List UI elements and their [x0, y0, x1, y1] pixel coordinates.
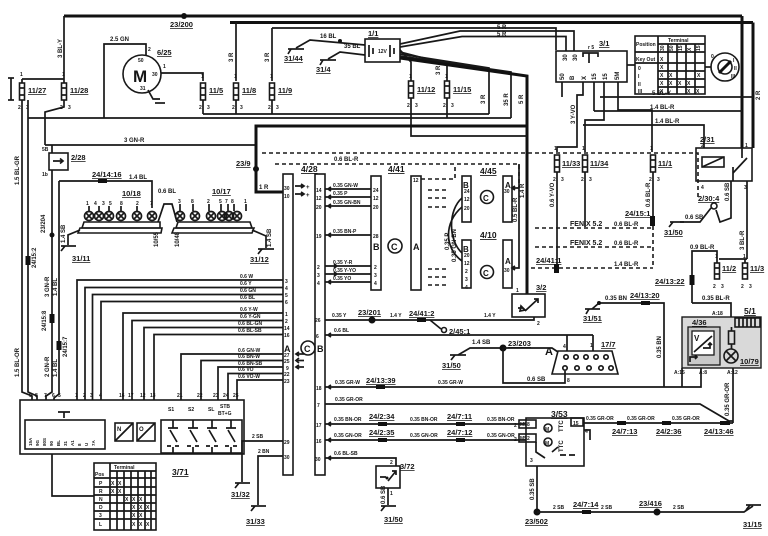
svg-text:11/28: 11/28: [70, 86, 88, 95]
wire motor pin30 to fuse 11/5: [161, 73, 203, 81]
svg-text:2 SB: 2 SB: [673, 505, 685, 511]
svg-text:O: O: [139, 427, 144, 433]
svg-text:6/25: 6/25: [157, 48, 172, 57]
svg-text:11/34: 11/34: [590, 159, 609, 168]
svg-text:2: 2: [18, 105, 21, 111]
ground 31/4: [328, 52, 365, 59]
svg-text:1.5 BL-GR: 1.5 BL-GR: [15, 155, 21, 185]
svg-text:3 R: 3 R: [481, 94, 487, 104]
svg-text:23/502: 23/502: [525, 517, 548, 526]
svg-text:4/28: 4/28: [301, 164, 318, 174]
solenoid N: [115, 423, 133, 441]
svg-text:2: 2: [390, 460, 393, 466]
svg-text:18: 18: [316, 386, 322, 392]
svg-text:0.6 BL: 0.6 BL: [158, 189, 176, 195]
svg-text:0.6 Y-VO: 0.6 Y-VO: [550, 182, 556, 207]
svg-text:1.4 Y: 1.4 Y: [390, 313, 402, 319]
svg-text:2: 2: [199, 105, 202, 111]
svg-text:1: 1: [650, 146, 653, 152]
wire left long vertical 11/27 pin2: [22, 100, 32, 400]
wire top bus 30-feed: [64, 15, 742, 18]
svg-text:3 R: 3 R: [436, 65, 442, 75]
svg-text:17: 17: [128, 393, 134, 399]
svg-text:2 SB: 2 SB: [601, 505, 613, 511]
wire second top bus: [230, 21, 753, 24]
svg-text:0.35 GN-BN: 0.35 GN-BN: [333, 200, 361, 206]
svg-text:11/15: 11/15: [453, 85, 471, 94]
svg-text:1.4 R: 1.4 R: [520, 183, 526, 198]
svg-text:1.4 BL-R: 1.4 BL-R: [655, 119, 680, 125]
svg-text:2: 2: [553, 177, 556, 183]
ground motor 31: [148, 90, 160, 99]
svg-text:B: B: [570, 75, 576, 80]
svg-text:BL: BL: [56, 440, 61, 446]
svg-text:15: 15: [603, 73, 609, 80]
svg-text:2: 2: [649, 177, 652, 183]
svg-text:30: 30: [504, 268, 510, 274]
svg-text:A1: A1: [70, 440, 75, 446]
wire dashed stubs 4/45: [428, 190, 448, 207]
svg-text:1.4 BL-R: 1.4 BL-R: [650, 105, 675, 111]
svg-text:0.6 SB: 0.6 SB: [527, 377, 546, 383]
svg-text:16: 16: [316, 439, 322, 445]
wire battery fan to 11/15: [400, 52, 447, 81]
svg-text:35 R: 35 R: [504, 93, 510, 106]
node 23/201: [369, 317, 376, 324]
svg-text:19: 19: [316, 234, 322, 240]
wire stair pin23 0.6 VO-W: [237, 380, 283, 400]
svg-text:0.35 BN-OR: 0.35 BN-OR: [487, 417, 515, 423]
wire row 20 GN-BN: [325, 204, 371, 208]
svg-text:15: 15: [678, 45, 684, 51]
svg-text:A:18: A:18: [712, 311, 723, 317]
wire 11/1 down 0.6 BL-R: [652, 172, 654, 222]
svg-text:V: V: [694, 334, 700, 343]
wire row 3 Y-YO: [325, 272, 371, 276]
svg-text:24/2:36: 24/2:36: [656, 427, 681, 436]
wire stair pin5 0.6GN: [93, 295, 284, 401]
svg-text:6: 6: [316, 334, 319, 340]
wire row 4 YO: [325, 280, 371, 284]
svg-text:0.35 BN-P: 0.35 BN-P: [333, 229, 357, 235]
svg-text:1: 1: [554, 146, 557, 152]
fuse 11/3: [743, 263, 748, 279]
SEC-C: [531, 36, 764, 330]
svg-text:1: 1: [234, 74, 237, 80]
wire 0.5 BL-R vertical to pins 30: [513, 164, 519, 268]
svg-text:11/12: 11/12: [417, 85, 435, 94]
svg-text:0.35 GR-W: 0.35 GR-W: [335, 380, 360, 386]
wire 24/14:16 row 1.4 BL: [59, 181, 152, 208]
svg-text:2: 2: [701, 143, 704, 149]
wire row pin26 1.4Y: [325, 317, 534, 320]
svg-text:0.35 GN-W: 0.35 GN-W: [333, 183, 358, 189]
svg-text:S1: S1: [168, 407, 174, 413]
svg-text:24/13:20: 24/13:20: [630, 291, 660, 300]
fuse 11/27: [20, 83, 25, 100]
svg-text:23: 23: [213, 393, 219, 399]
wire right drop to relay 2/31 pin1: [741, 16, 744, 148]
svg-text:11/27: 11/27: [28, 86, 46, 95]
svg-text:C: C: [483, 194, 489, 203]
svg-text:1 R: 1 R: [259, 185, 269, 191]
svg-text:U: U: [84, 443, 89, 446]
svg-text:14: 14: [316, 188, 322, 194]
SEC-D: [15, 100, 698, 400]
svg-text:26: 26: [315, 318, 321, 324]
svg-text:3: 3: [465, 277, 468, 283]
svg-text:12: 12: [373, 196, 379, 202]
svg-text:0.35 P: 0.35 P: [445, 233, 451, 250]
svg-text:2: 2: [443, 103, 446, 109]
svg-text:0.6 SB: 0.6 SB: [685, 215, 704, 221]
svg-text:31/50: 31/50: [442, 361, 461, 370]
bridge between trays: [158, 204, 177, 222]
resistor: [731, 327, 733, 349]
svg-text:1: 1: [582, 146, 585, 152]
wire stair pin6 0.6BL: [101, 302, 283, 401]
svg-text:4/36: 4/36: [692, 318, 707, 327]
svg-text:L: L: [99, 522, 102, 528]
wire A:12 down: [732, 368, 734, 423]
wire 2/30:4 and ground: [716, 181, 731, 222]
svg-text:1: 1: [75, 393, 78, 399]
wire 2SB ground 31/32: [242, 441, 283, 482]
svg-text:SL: SL: [208, 407, 214, 413]
svg-text:4: 4: [94, 201, 97, 207]
wire 2.5 GN feed: [104, 44, 146, 118]
svg-text:2 GN-R: 2 GN-R: [45, 356, 51, 377]
svg-text:30: 30: [573, 54, 579, 61]
svg-text:TTC: TTC: [559, 420, 565, 432]
svg-text:7A: 7A: [91, 439, 96, 446]
svg-text:12: 12: [464, 197, 470, 203]
svg-text:2/30:4: 2/30:4: [698, 194, 720, 203]
svg-text:1: 1: [270, 74, 273, 80]
svg-text:3 BL-R: 3 BL-R: [740, 230, 746, 250]
svg-text:2: 2: [83, 393, 86, 399]
wire row pin18 GR-W 24/13:39: [325, 368, 701, 389]
svg-text:2 R: 2 R: [756, 90, 762, 100]
wire ground bus 2 SB: [537, 506, 753, 512]
wire fuse 11/28 bottom jog: [45, 100, 64, 145]
svg-text:1: 1: [745, 143, 748, 149]
svg-text:1: 1: [201, 74, 204, 80]
wire bus y28 inner feed: [272, 28, 556, 50]
svg-text:N: N: [117, 427, 121, 433]
svg-text:2: 2: [465, 269, 468, 275]
svg-text:20: 20: [373, 205, 379, 211]
node 24/15:8: [50, 314, 55, 323]
svg-text:9G: 9G: [35, 439, 40, 446]
wire stair pin16 0.6 BL-SB: [154, 335, 283, 401]
svg-text:15: 15: [592, 73, 598, 80]
svg-text:11/8: 11/8: [242, 86, 256, 95]
wire stair pin1 0.6 Y-W: [123, 313, 283, 400]
switch pack S1 S2 SL STB: [161, 420, 242, 453]
svg-text:24: 24: [223, 393, 229, 399]
svg-text:4: 4: [374, 281, 377, 287]
fuse 11/2: [715, 263, 720, 279]
terminal strip: [25, 420, 105, 449]
svg-text:9: 9: [29, 393, 32, 399]
svg-text:31/51: 31/51: [583, 314, 602, 323]
svg-text:24/13:39: 24/13:39: [366, 376, 396, 385]
svg-text:24/15:8: 24/15:8: [42, 310, 48, 331]
svg-text:15: 15: [573, 421, 579, 427]
svg-text:1.4 BL: 1.4 BL: [53, 359, 59, 377]
svg-text:10/18: 10/18: [122, 189, 141, 198]
svg-text:4: 4: [317, 281, 320, 287]
svg-text:2: 2: [741, 284, 744, 290]
wire stair pin9 0.6 BN-SB: [218, 365, 299, 400]
svg-text:28: 28: [373, 234, 379, 240]
lamp bulbs 10/17: [176, 212, 242, 221]
wire drop to fuse 11/8: [235, 23, 237, 82]
svg-text:5 R: 5 R: [497, 25, 507, 31]
svg-text:0.6 BL-R: 0.6 BL-R: [646, 182, 652, 207]
wire fuse 11/27 pin3 drop: [27, 100, 29, 118]
svg-text:21: 21: [177, 393, 183, 399]
svg-text:7: 7: [150, 201, 153, 207]
svg-text:0.35 Y: 0.35 Y: [332, 313, 347, 319]
svg-text:20: 20: [464, 206, 470, 212]
wire battery fan to 11/12: [400, 50, 411, 81]
svg-text:3: 3: [657, 177, 660, 183]
SEC-A: [8, 13, 762, 148]
wire row 12 P: [325, 195, 371, 199]
svg-text:2: 2: [514, 437, 517, 443]
node 23/502: [534, 509, 541, 516]
svg-text:0.35 GN-BN: 0.35 GN-BN: [452, 229, 458, 262]
svg-text:5 R: 5 R: [497, 32, 507, 38]
svg-text:0.35 GR-OR: 0.35 GR-OR: [586, 416, 614, 422]
svg-text:16 BL: 16 BL: [320, 34, 337, 40]
svg-text:2: 2: [581, 177, 584, 183]
svg-text:30: 30: [284, 186, 290, 192]
wire row pin17 BN-OR: [325, 422, 526, 426]
SEC-F: [315, 283, 761, 423]
svg-text:2 SB: 2 SB: [553, 505, 565, 511]
svg-text:24/7:11: 24/7:11: [447, 412, 472, 421]
svg-text:0: 0: [711, 54, 714, 60]
ground 31/50 right: [670, 221, 684, 223]
wire dashed 4/41 pin12: [421, 164, 455, 179]
svg-text:2.5 GN: 2.5 GN: [110, 37, 129, 43]
ignition table Position/Terminal: [635, 36, 705, 94]
svg-text:25: 25: [284, 359, 290, 365]
ground 31/51: [592, 303, 599, 309]
svg-text:1: 1: [590, 343, 593, 349]
svg-text:24: 24: [464, 189, 470, 195]
svg-text:5B: 5B: [42, 147, 49, 153]
svg-text:0.6 Y-W: 0.6 Y-W: [240, 307, 258, 313]
wire dashed D2: [275, 164, 519, 188]
svg-text:2: 2: [713, 284, 716, 290]
svg-text:20: 20: [316, 205, 322, 211]
node 24/15:7: [57, 341, 62, 350]
T symbol: [58, 412, 70, 418]
svg-text:3: 3: [90, 393, 93, 399]
svg-text:3: 3: [530, 458, 533, 464]
wire 2/28 down long: [46, 170, 52, 400]
wire 0.35 BN 24/13:20: [599, 303, 664, 330]
svg-text:2/28: 2/28: [71, 153, 86, 162]
svg-text:2: 2: [537, 321, 540, 327]
wire 1.4 BL-R upper: [594, 110, 742, 112]
wire battery fan 5R b: [400, 37, 566, 52]
wire 3 GN-R row: [45, 144, 256, 146]
svg-text:0.35 P: 0.35 P: [333, 191, 348, 197]
svg-text:30: 30: [563, 54, 569, 61]
svg-text:3/71: 3/71: [172, 467, 189, 477]
svg-text:31/15: 31/15: [743, 520, 762, 529]
solenoid D: [137, 423, 155, 441]
wire row 2 Y-R: [325, 264, 371, 268]
svg-text:0.35 GR-OR: 0.35 GR-OR: [725, 382, 731, 416]
svg-text:FENIX 5.2: FENIX 5.2: [570, 240, 602, 247]
svg-text:Terminal: Terminal: [114, 465, 135, 471]
wire stair pin4 0.6Y: [85, 288, 283, 401]
svg-text:1: 1: [715, 254, 718, 260]
connector 2/45:1: [430, 320, 441, 329]
svg-text:0.6 Y: 0.6 Y: [240, 281, 252, 287]
edge bracket: [10, 78, 12, 100]
svg-text:1: 1: [516, 288, 519, 294]
svg-text:+: +: [306, 185, 310, 191]
wire dashed D1: [262, 153, 698, 200]
wire stair pin25 0.6 BN-W: [201, 358, 299, 400]
svg-text:50: 50: [560, 73, 566, 80]
svg-text:80S: 80S: [42, 438, 47, 446]
svg-text:3 GN-R: 3 GN-R: [45, 276, 51, 297]
svg-text:0.35 BN: 0.35 BN: [605, 296, 627, 302]
svg-text:2: 2: [514, 423, 517, 429]
svg-text:A: A: [545, 346, 553, 358]
svg-text:0.6 BN-W: 0.6 BN-W: [238, 354, 260, 360]
svg-text:1.4 SB: 1.4 SB: [267, 228, 273, 247]
svg-text:12V: 12V: [378, 49, 388, 55]
svg-text:0.35 GR-W: 0.35 GR-W: [438, 380, 463, 386]
svg-text:0.35 BN-OR: 0.35 BN-OR: [410, 417, 438, 423]
svg-text:R: R: [99, 489, 103, 495]
lamp tray 10/17: [176, 222, 252, 228]
node 23/9: [253, 166, 259, 172]
svg-text:0.35 BN: 0.35 BN: [657, 336, 663, 358]
svg-text:N: N: [99, 497, 103, 503]
svg-text:2: 2: [268, 105, 271, 111]
svg-text:1: 1: [409, 74, 412, 80]
svg-text:0.35 BN-OR: 0.35 BN-OR: [334, 417, 362, 423]
svg-text:11/9: 11/9: [278, 86, 292, 95]
wire relay pin3 down to fuses 11/2 11/3: [746, 181, 748, 259]
svg-text:0.35 GN-OR: 0.35 GN-OR: [334, 433, 362, 439]
svg-text:12: 12: [140, 393, 146, 399]
svg-text:12: 12: [316, 196, 322, 202]
wire bus y114: [203, 113, 489, 115]
svg-text:30: 30: [315, 457, 321, 463]
svg-text:24/7:14: 24/7:14: [573, 500, 599, 509]
svg-text:0.6 GN: 0.6 GN: [240, 288, 256, 294]
wire 0.35 BL-R to A:18: [692, 303, 731, 317]
svg-text:3: 3: [374, 273, 377, 279]
svg-text:1: 1: [285, 312, 288, 318]
wire row 19 BN-P: [325, 233, 371, 237]
wire stair pin27 0.6 GN-W: [181, 352, 299, 400]
svg-text:30: 30: [152, 72, 158, 78]
svg-text:3/72: 3/72: [400, 462, 415, 471]
svg-text:31: 31: [140, 86, 146, 92]
svg-text:2: 2: [232, 105, 235, 111]
svg-text:2 SB: 2 SB: [252, 434, 264, 440]
svg-text:30: 30: [504, 189, 510, 195]
wire 11/33 down 0.6 Y-VO: [556, 172, 558, 268]
svg-text:6: 6: [52, 393, 55, 399]
wire battery fan 5R heavy down: [400, 58, 527, 294]
wire feed 11/1: [618, 97, 652, 152]
svg-text:11/1: 11/1: [658, 159, 672, 168]
ground 31/50 mid: [450, 354, 466, 356]
svg-text:BT+G: BT+G: [218, 411, 232, 417]
svg-text:3: 3: [285, 279, 288, 285]
svg-text:16: 16: [119, 393, 125, 399]
svg-text:11/3: 11/3: [750, 264, 764, 273]
ignition key switch: [705, 66, 711, 68]
svg-text:13: 13: [150, 393, 156, 399]
svg-text:5/1: 5/1: [744, 306, 756, 316]
wire stair pin14 0.6 BL-GN: [144, 328, 283, 401]
svg-text:3/1: 3/1: [599, 39, 609, 48]
svg-text:3: 3: [276, 105, 279, 111]
svg-text:3: 3: [207, 105, 210, 111]
svg-text:3 BL-Y: 3 BL-Y: [58, 39, 64, 58]
svg-text:2: 2: [407, 103, 410, 109]
svg-text:3: 3: [451, 103, 454, 109]
wire link fuse tops: [22, 78, 64, 80]
lamp tray 10/18: [82, 222, 160, 228]
wire feed 11/34: [585, 82, 604, 152]
svg-text:C: C: [483, 269, 489, 278]
wire battery fan 3R down: [400, 54, 489, 114]
svg-text:1.4 SB: 1.4 SB: [61, 224, 67, 243]
svg-text:A:15: A:15: [674, 370, 685, 376]
node 23/204: [50, 233, 55, 238]
svg-text:D: D: [99, 505, 103, 511]
svg-text:4/10: 4/10: [480, 230, 497, 240]
wire row GR-OR right to 24/13:46: [583, 422, 733, 424]
SEC-B: [28, 23, 574, 295]
svg-text:3: 3: [721, 284, 724, 290]
svg-text:23/200: 23/200: [170, 20, 193, 29]
svg-text:0.6 BL: 0.6 BL: [240, 295, 255, 301]
svg-text:3 R: 3 R: [265, 52, 271, 62]
wire left long vertical from bus: [28, 118, 37, 400]
svg-text:Terminal: Terminal: [668, 38, 689, 44]
svg-text:10/55: 10/55: [154, 231, 160, 247]
svg-text:3/2: 3/2: [536, 283, 546, 292]
SEC-E: [283, 164, 526, 475]
svg-text:4: 4: [99, 393, 102, 399]
svg-text:24/15:2: 24/15:2: [32, 247, 38, 268]
svg-text:0.9 BL-R: 0.9 BL-R: [690, 245, 715, 251]
svg-text:24/2:35: 24/2:35: [369, 428, 394, 437]
svg-text:24/15:7: 24/15:7: [63, 336, 69, 357]
svg-text:2: 2: [148, 47, 151, 53]
ground 31/12: [252, 230, 266, 248]
svg-text:17/7: 17/7: [601, 340, 616, 349]
svg-text:C: C: [391, 242, 398, 252]
svg-text:31/4: 31/4: [316, 65, 331, 74]
